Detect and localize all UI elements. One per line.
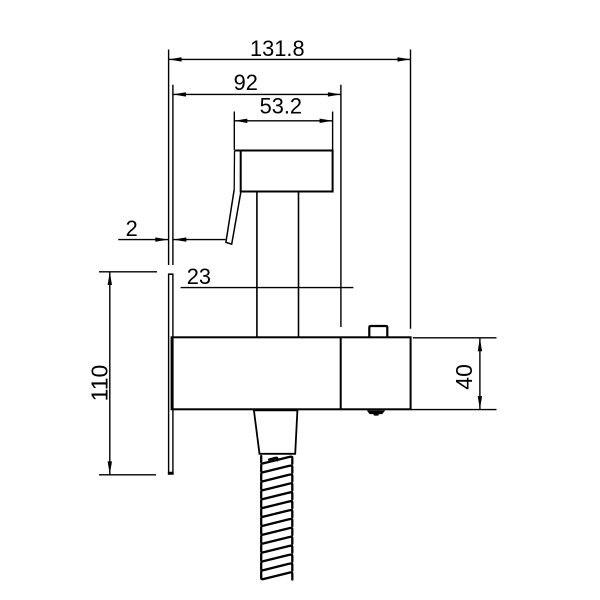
wall plate small cap at gap	[168, 273, 174, 275]
dim 40 dimension line	[479, 338, 481, 409]
dim 110 dimension line	[109, 272, 111, 474]
handle upper thin line	[233, 151, 235, 190]
wall plate bottom cap	[168, 473, 174, 474]
dim 110 top arrow	[108, 272, 112, 285]
dim 40 bottom arrow	[478, 396, 482, 409]
valve body rectangle	[172, 337, 411, 409]
neck left line	[256, 192, 258, 338]
dim 53.2 left extension line	[233, 112, 235, 150]
svg-text:92: 92	[234, 70, 258, 95]
svg-text:53.2: 53.2	[260, 94, 302, 119]
dim 131.8 right arrow	[398, 57, 411, 61]
dim 40 bottom extension line	[411, 409, 497, 411]
dim 40 top extension line	[413, 337, 497, 339]
dim 92 left arrow	[173, 92, 186, 96]
wall plate right edge + 92 left extension	[172, 85, 174, 475]
dim 40 top arrow	[478, 338, 482, 351]
wall plate left edge + 131.8 left extension	[168, 50, 170, 475]
sprayer head rectangle	[241, 151, 333, 192]
dim 53.2 dimension line	[234, 120, 332, 122]
dim 92 right extension line	[340, 85, 342, 327]
svg-text:110: 110	[86, 365, 112, 402]
hose connector trapezoid	[254, 410, 298, 454]
dim 131.8 left arrow	[169, 57, 182, 61]
dim 2 left line with right-pointing arrow	[118, 239, 168, 241]
dim 92 right arrow	[328, 92, 341, 96]
dim 23 line	[181, 287, 354, 289]
dim 2 right line with left-pointing arrow	[173, 239, 225, 241]
neck right line	[298, 192, 300, 338]
dim 131.8 right extension line	[410, 50, 412, 329]
flexible hose coils	[261, 456, 292, 580]
svg-text:23: 23	[187, 264, 211, 289]
valve block divider	[340, 337, 342, 409]
dim 53.2 right extension line	[332, 112, 334, 150]
dim 131.8 dimension line	[169, 58, 411, 60]
svg-text:131.8: 131.8	[250, 36, 305, 61]
sprayer head top edge overhang	[235, 150, 242, 152]
outlet bump under valve block	[367, 410, 385, 415]
dim 53.2 left arrow	[234, 119, 247, 123]
dim 110 bottom extension line	[99, 474, 156, 476]
dim 92 dimension line	[173, 93, 341, 95]
dim 53.2 right arrow	[320, 119, 333, 123]
dim 110 bottom arrow	[108, 461, 112, 474]
svg-text:2: 2	[126, 216, 138, 241]
handle lever outline	[226, 190, 241, 245]
knob on top of valve block	[369, 326, 387, 337]
svg-text:40: 40	[451, 364, 477, 390]
dim 110 top extension line	[99, 271, 157, 273]
